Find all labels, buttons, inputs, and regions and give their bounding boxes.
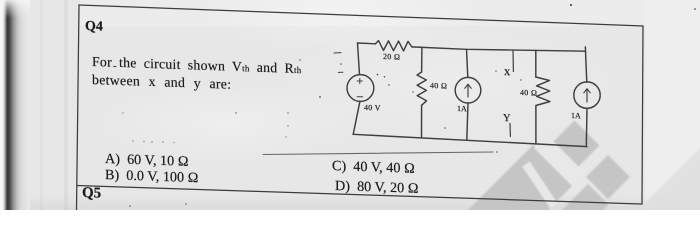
book spine dark band at left edge	[0, 0, 30, 210]
box bottom border	[77, 186, 642, 205]
terminal x stub	[512, 51, 514, 72]
resistor R2 40ohm vertical zigzag	[417, 72, 427, 105]
current source I1 circle	[455, 77, 481, 103]
separator line above options C/D	[263, 152, 493, 155]
stray dash left of V1	[334, 53, 343, 73]
V1 minus sign	[357, 96, 362, 98]
watermark white cut lower	[522, 162, 557, 209]
background shading patches	[645, 0, 700, 210]
circuit	[334, 41, 600, 147]
watermark diamond head	[550, 121, 600, 171]
circuit label 40 V	[364, 103, 381, 113]
watermark corner piece beyond border	[640, 144, 700, 240]
wire: left branch upper	[358, 43, 360, 75]
option C	[332, 158, 415, 178]
question paragraph line 1	[92, 54, 302, 77]
option A	[105, 151, 189, 171]
box right border	[642, 26, 643, 204]
watermark white cut upper	[534, 135, 586, 187]
circuit label Y	[503, 113, 511, 124]
label Q4	[85, 19, 103, 36]
circuit label 20 ohm	[383, 52, 400, 62]
I2 arrow up	[584, 89, 590, 102]
watermark right stripe	[511, 184, 609, 240]
circuit label 1A (I2)	[571, 111, 581, 120]
I1 arrow up	[465, 84, 471, 97]
wire: branch4 upper	[535, 50, 537, 77]
wire: left branch lower	[353, 101, 360, 134]
wire: top, R1 to top right corner	[412, 47, 586, 51]
circuit label x	[504, 64, 510, 79]
wire: top left corner to resistor R1	[358, 42, 376, 45]
option D	[335, 178, 419, 198]
faint streaks in left margin	[40, 0, 43, 210]
watermark right stripe diamond cap	[586, 155, 630, 199]
circuit label 40 ohm (R2)	[430, 81, 447, 91]
circuit label 1A (I1)	[457, 104, 467, 113]
voltage source V1 circle	[347, 75, 374, 102]
resistor R3 40ohm vertical zigzag	[536, 77, 550, 109]
wire: right branch upper	[585, 47, 586, 82]
V1 plus sign	[357, 79, 362, 84]
current source I2 circle	[574, 82, 600, 108]
resistor R1 20ohm horizontal zigzag	[376, 41, 412, 51]
wire: branch2 upper	[421, 47, 423, 72]
question paragraph line 2	[92, 72, 231, 93]
option B	[105, 167, 199, 187]
wire: branch4 lower	[535, 109, 537, 144]
box top border	[79, 5, 643, 26]
terminal y stub	[509, 124, 511, 137]
wire: branch3 lower	[467, 103, 468, 140]
wire: right branch lower	[585, 108, 588, 146]
wire: branch3 upper	[467, 49, 468, 77]
watermark: gray diagonal logo bottom-right	[454, 121, 700, 240]
scan speckles	[122, 4, 696, 207]
circuit label 40 ohm (R3)	[520, 88, 537, 98]
label Q5	[82, 185, 101, 203]
watermark main body stripe	[454, 145, 573, 240]
stray mark after For	[113, 60, 117, 72]
box left border	[77, 5, 80, 210]
wire: branch2 lower	[421, 105, 423, 138]
wire: bottom	[353, 134, 587, 146]
